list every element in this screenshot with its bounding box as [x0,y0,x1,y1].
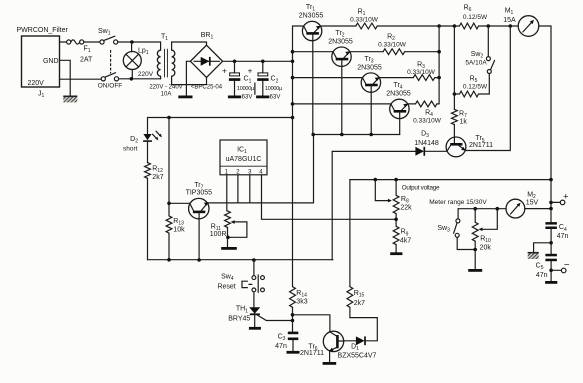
transformer T1 220V-240V 10A [149,34,182,98]
pin 1 wire to R11 [226,175,228,211]
node D2/R13 branch [291,116,295,120]
wire Tr5 emitter to rail riser [465,26,510,151]
switch Sw1 (pole 1) [98,28,118,44]
dashed gang link Sw1 [110,51,112,74]
node Tr5 emitter riser [509,24,513,28]
transistor Tr7 TIP3055 [186,182,213,260]
svg-text:47n: 47n [275,343,287,350]
node R8 top [394,178,398,182]
chassis ground (hatched) at C4/C5 [528,243,551,259]
ground bar at Tr6 [323,362,337,365]
ground bar at C2 [256,96,269,99]
svg-text:0.33/10W: 0.33/10W [407,69,436,76]
bottom control rail [148,259,333,261]
node C4/C5 chassis tap [549,241,553,245]
svg-text:63V: 63V [270,95,281,101]
wire J1 bottom to ON/OFF [60,78,102,80]
rail right riser to D3 line [331,151,333,259]
svg-text:2k7: 2k7 [354,300,365,307]
node R5 branch left [453,24,457,28]
svg-text:2k7: 2k7 [152,174,163,181]
capacitor C4 47n [545,222,568,254]
node R8/R9/pin4 [394,218,398,222]
node lamp top [130,40,134,44]
zener D1 BZX55C4V7 [338,318,378,360]
transistor Tr5 2N1711 [446,135,493,157]
resistor R3 0.33/10W [379,62,439,81]
svg-text:15V: 15V [526,200,539,207]
node Sw2 branch right [487,24,491,28]
wire T1 secondary to bridge [172,42,207,85]
svg-text:0.33/10W: 0.33/10W [378,42,407,49]
resistor R2 0.33/10W [350,34,439,55]
svg-text:Reset: Reset [217,284,235,291]
svg-text:0.12/5W: 0.12/5W [463,84,488,91]
wire V1 to Tr4 collector [293,103,392,105]
transistor Tr4 2N3055 [386,82,411,135]
node Tr7 collector branch [167,202,171,206]
svg-text:0.12/5W: 0.12/5W [463,14,488,21]
wire raw branch to D2/R13 [148,117,293,119]
wire M2 to +bus [525,208,551,210]
svg-text:10k: 10k [173,226,185,233]
svg-text:10000µ: 10000µ [265,86,283,92]
node Tr4 collector [291,102,295,106]
ground bar at bridge [178,96,192,99]
ground bar at R10 [468,269,482,272]
svg-text:5A/10A: 5A/10A [465,60,487,67]
node C1 top [233,60,237,64]
node Tr7 rail [197,258,201,262]
svg-text:20k: 20k [480,245,492,252]
capacitor C2 10000u 63V [248,61,284,100]
svg-text:47n: 47n [536,272,548,279]
svg-text:4k7: 4k7 [400,237,411,244]
transistor Tr6 2N1711 [300,331,344,362]
node R1/R bus [437,24,441,28]
ground bar at C3 [287,351,300,354]
resistor R12 2k7 [145,142,164,260]
wire GND to earth [60,60,71,96]
node R8 wiper [374,178,378,182]
node base bus left / drive riser [311,133,315,137]
transistor Tr3 2N3055 [357,56,382,135]
capacitor C5 47n [536,254,557,281]
svg-text:−: − [564,259,570,270]
wire ON/OFF to transformer bottom [119,78,161,80]
ground bar at R11 [221,247,237,250]
node R14/Tr6 collector [291,313,295,317]
node M2/+bus [549,207,553,211]
svg-text:0.33/10W: 0.33/10W [350,17,379,24]
node R10 top [473,207,477,211]
svg-text:2N3055: 2N3055 [328,39,353,46]
svg-text:2N3055: 2N3055 [386,91,411,98]
wire raw+ rail bridge to V1 bus [223,60,293,62]
node TH1 gate [291,319,295,323]
svg-text:220V: 220V [28,80,45,87]
wire J1 top to fuse [60,41,67,43]
switch Sw3 [437,209,475,250]
potentiometer R11 100R [210,211,247,247]
svg-text:2AT: 2AT [80,57,93,64]
svg-text:3k3: 3k3 [296,299,307,306]
node Tr2 base [340,133,344,137]
svg-text:BRY45: BRY45 [228,316,250,323]
svg-text:ON/OFF: ON/OFF [98,82,123,89]
wire Tr7 emitter to pin2/pin3 and base-bus riser [208,202,314,204]
svg-text:2N3055: 2N3055 [357,65,382,72]
wire to Tr6 collector [293,315,330,332]
svg-text:Output voltage: Output voltage [402,184,440,191]
svg-text:220V: 220V [138,71,154,78]
thyristor TH1 BRY45 [228,292,292,327]
resistor R1 0.33/10W [321,9,379,29]
diode D3 1N4148 [332,131,446,156]
switch Sw1 pole 2 ON/OFF [98,73,123,90]
transistor Tr2 2N3055 [328,30,353,135]
svg-text:+: + [248,66,253,76]
svg-text:GND: GND [43,58,59,65]
separator mark between C1/C2 labels [254,83,256,94]
svg-text:22k: 22k [400,205,412,212]
svg-text:0.33/10W: 0.33/10W [413,117,442,124]
transistor Tr1 2N3055 [299,4,324,135]
svg-text:63V: 63V [242,95,253,101]
svg-text:1N4148: 1N4148 [414,140,439,147]
svg-text:220V - 240V: 220V - 240V [149,84,182,90]
node + terminal tap [549,201,553,205]
svg-text:2N1711: 2N1711 [300,350,324,357]
node R2 join [437,50,441,54]
svg-text:short: short [123,146,138,153]
node R10 wiper riser [496,207,500,211]
wire R13 node to Tr7 [169,202,190,204]
pin 4 wire to R8/R9 divider [262,175,397,220]
node C2 top [261,60,265,64]
node Tr2 collector [291,50,295,54]
node output line/+bus [549,178,553,182]
ground bar at C1 [228,96,241,99]
node lamp bottom [130,77,134,81]
resistor R7 1k [452,26,468,143]
voltmeter M2 15V [506,192,539,218]
svg-text:10000µ: 10000µ [237,86,255,92]
svg-text:10A: 10A [161,92,172,98]
resistor R9 4k7 [393,226,411,252]
+ output terminal [551,192,569,205]
bridge rectifier BR1 KBPC25-04 [190,32,222,90]
resistor R15 2k7 [347,180,365,318]
resistor R5 0.12/5W [454,74,489,97]
- output terminal [551,259,570,273]
output voltage sense line [350,179,551,181]
main output rail to M1 [377,25,517,27]
capacitor C1 10000u 63V [222,61,255,100]
fuse F1 2AT [67,40,93,64]
svg-text:BZX55C4V7: BZX55C4V7 [338,352,377,359]
earth ground (hatched) at J1 [63,96,77,103]
wire V1 to Tr1 collector [293,25,304,27]
potentiometer R10 20k [472,209,497,270]
wire V1 to Tr3 collector [293,77,363,79]
resistor R14 3k3 [290,287,308,332]
svg-text:2N3055: 2N3055 [299,13,324,20]
svg-text:1k: 1k [460,119,468,126]
meter wire Sw3/R10 to M2 [458,208,506,210]
wire M1 to +bus corner [539,26,551,222]
node R5/R7 [453,92,457,96]
op-amp regulator IC1 uA78GU1C [220,140,267,175]
node raw rail joins V1 [291,60,295,64]
push button Sw4 Reset [217,260,264,292]
capacitor C3 47n [275,332,298,352]
ammeter M1 15A [503,8,539,37]
node Sw4 rail [252,258,256,262]
wire fuse to Sw1 [84,41,100,43]
pin 2 wire to Tr7 emitter [237,175,239,203]
LED D2 short indicator [123,118,162,153]
base bus of Tr1-Tr4 [313,134,400,136]
node Tr3 base [369,133,373,137]
node - terminal tap [549,269,553,273]
node R3 join [437,76,441,80]
svg-text:100R: 100R [210,231,227,238]
potentiometer R8 22k [375,180,412,227]
lamp Lp1 220V [123,42,153,79]
switch Sw2 5A/10A [465,26,494,74]
mains connector J1 PWRCON_Filter box [17,27,69,99]
ground bar at R9 [390,252,402,255]
svg-text:+: + [222,66,227,76]
resistor R4 0.33/10W [408,101,442,124]
svg-text:Meter range 15/30V: Meter range 15/30V [429,199,487,206]
svg-text:47n: 47n [557,233,569,240]
svg-text:2N1711: 2N1711 [469,142,493,149]
ground bar at TH1 [249,327,261,330]
svg-text:TIP3055: TIP3055 [186,189,213,196]
emitter resistor collector bus vertical x439 [438,26,440,104]
resistor R13 10k [166,118,185,260]
wire Sw1 to lamp node [118,41,161,43]
resistor R6 0.12/5W [460,5,488,29]
wire bridge minus to ground [186,61,190,95]
svg-text:15A: 15A [503,17,516,24]
pin 3 wire to base bus riser [250,135,314,203]
raw+ bus V1 vertical [292,26,294,287]
svg-text:PWRCON_Filter: PWRCON_Filter [17,27,69,34]
node Tr3 collector [291,76,295,80]
svg-text:+: + [563,192,569,203]
node R13 rail [167,258,171,262]
svg-text:<BPC25-04: <BPC25-04 [191,84,223,90]
ground bar at C5 [545,281,557,284]
wire V1 to Tr2 collector [293,51,334,53]
svg-text:uA78GU1C: uA78GU1C [226,156,262,163]
node R13 top [167,116,171,120]
